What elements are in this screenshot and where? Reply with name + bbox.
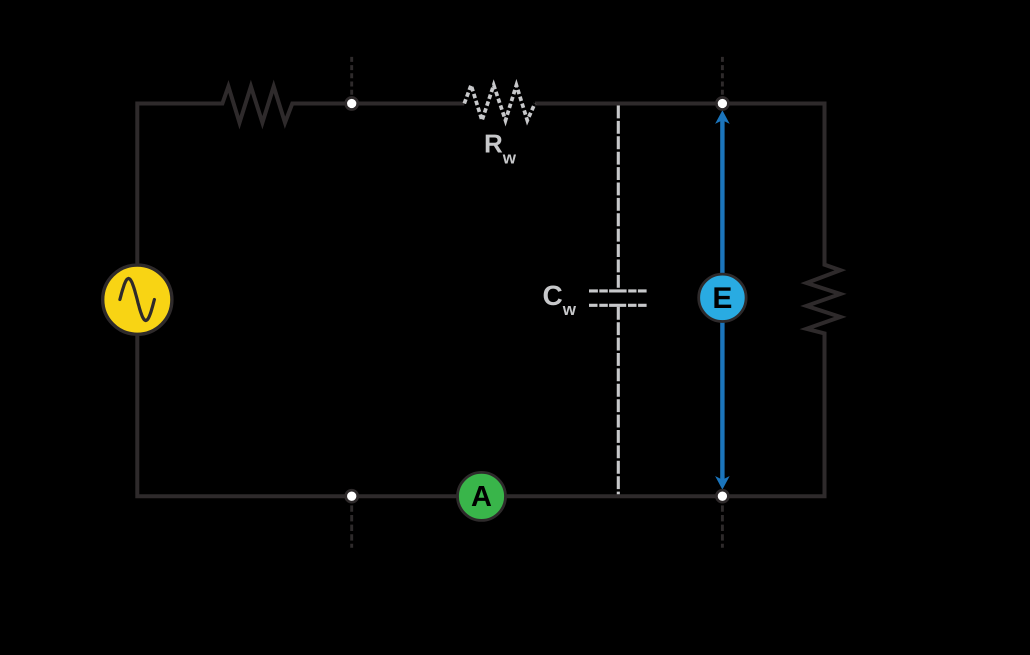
svg-text:A: A — [471, 481, 492, 513]
svg-text:E: E — [712, 282, 732, 315]
